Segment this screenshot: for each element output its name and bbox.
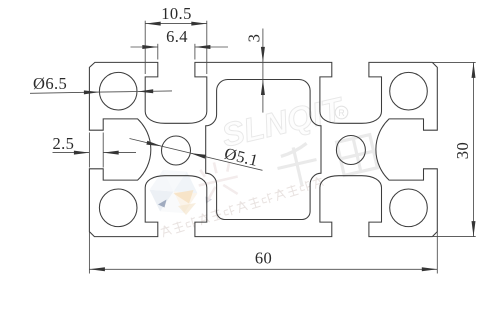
svg-text:6.4: 6.4 [166, 27, 188, 46]
dimension Ø6.5 leader [30, 92, 99, 93]
dimension Ø5.1 leader [130, 139, 263, 171]
dimension 30 extension lines [432, 61, 475, 63]
svg-text:2.5: 2.5 [53, 134, 75, 153]
dimension 60 line [89, 268, 437, 270]
dimension 10.5 extension lines [144, 21, 146, 74]
watermark tagline (small CJK strokes) [160, 176, 324, 237]
central square cavity [206, 80, 321, 220]
corner hole top-left [99, 72, 137, 110]
dimension 2.5 extension lines [88, 133, 90, 168]
corner hole top-right [390, 72, 428, 110]
profile outer outline [89, 62, 437, 236]
dimension 6.4 line (outside arrows) [131, 46, 158, 48]
svg-text:10.5: 10.5 [161, 4, 191, 23]
watermark char QIAN [273, 142, 321, 190]
dimension 10.5 line [145, 23, 207, 25]
svg-text:Ø6.5: Ø6.5 [33, 74, 67, 93]
dimension 3 lines [262, 29, 264, 63]
svg-text:R: R [338, 108, 345, 118]
watermark (R) mark [335, 106, 348, 119]
corner hole bottom-left [99, 189, 137, 227]
corner hole bottom-right [390, 189, 428, 227]
dimension 2.5 line [53, 152, 90, 154]
svg-text:3: 3 [245, 34, 264, 43]
svg-text:30: 30 [453, 142, 472, 159]
dimension 6.4 extension lines [157, 44, 159, 60]
center hole right [336, 136, 365, 165]
watermark char TIAN [337, 135, 378, 176]
dimension 60 extension lines [88, 232, 90, 274]
watermark logo pinwheel [163, 170, 187, 192]
center hole left [162, 136, 191, 165]
svg-text:60: 60 [255, 249, 272, 268]
dimension 30 line [473, 62, 475, 236]
watermark char XING [194, 158, 241, 202]
